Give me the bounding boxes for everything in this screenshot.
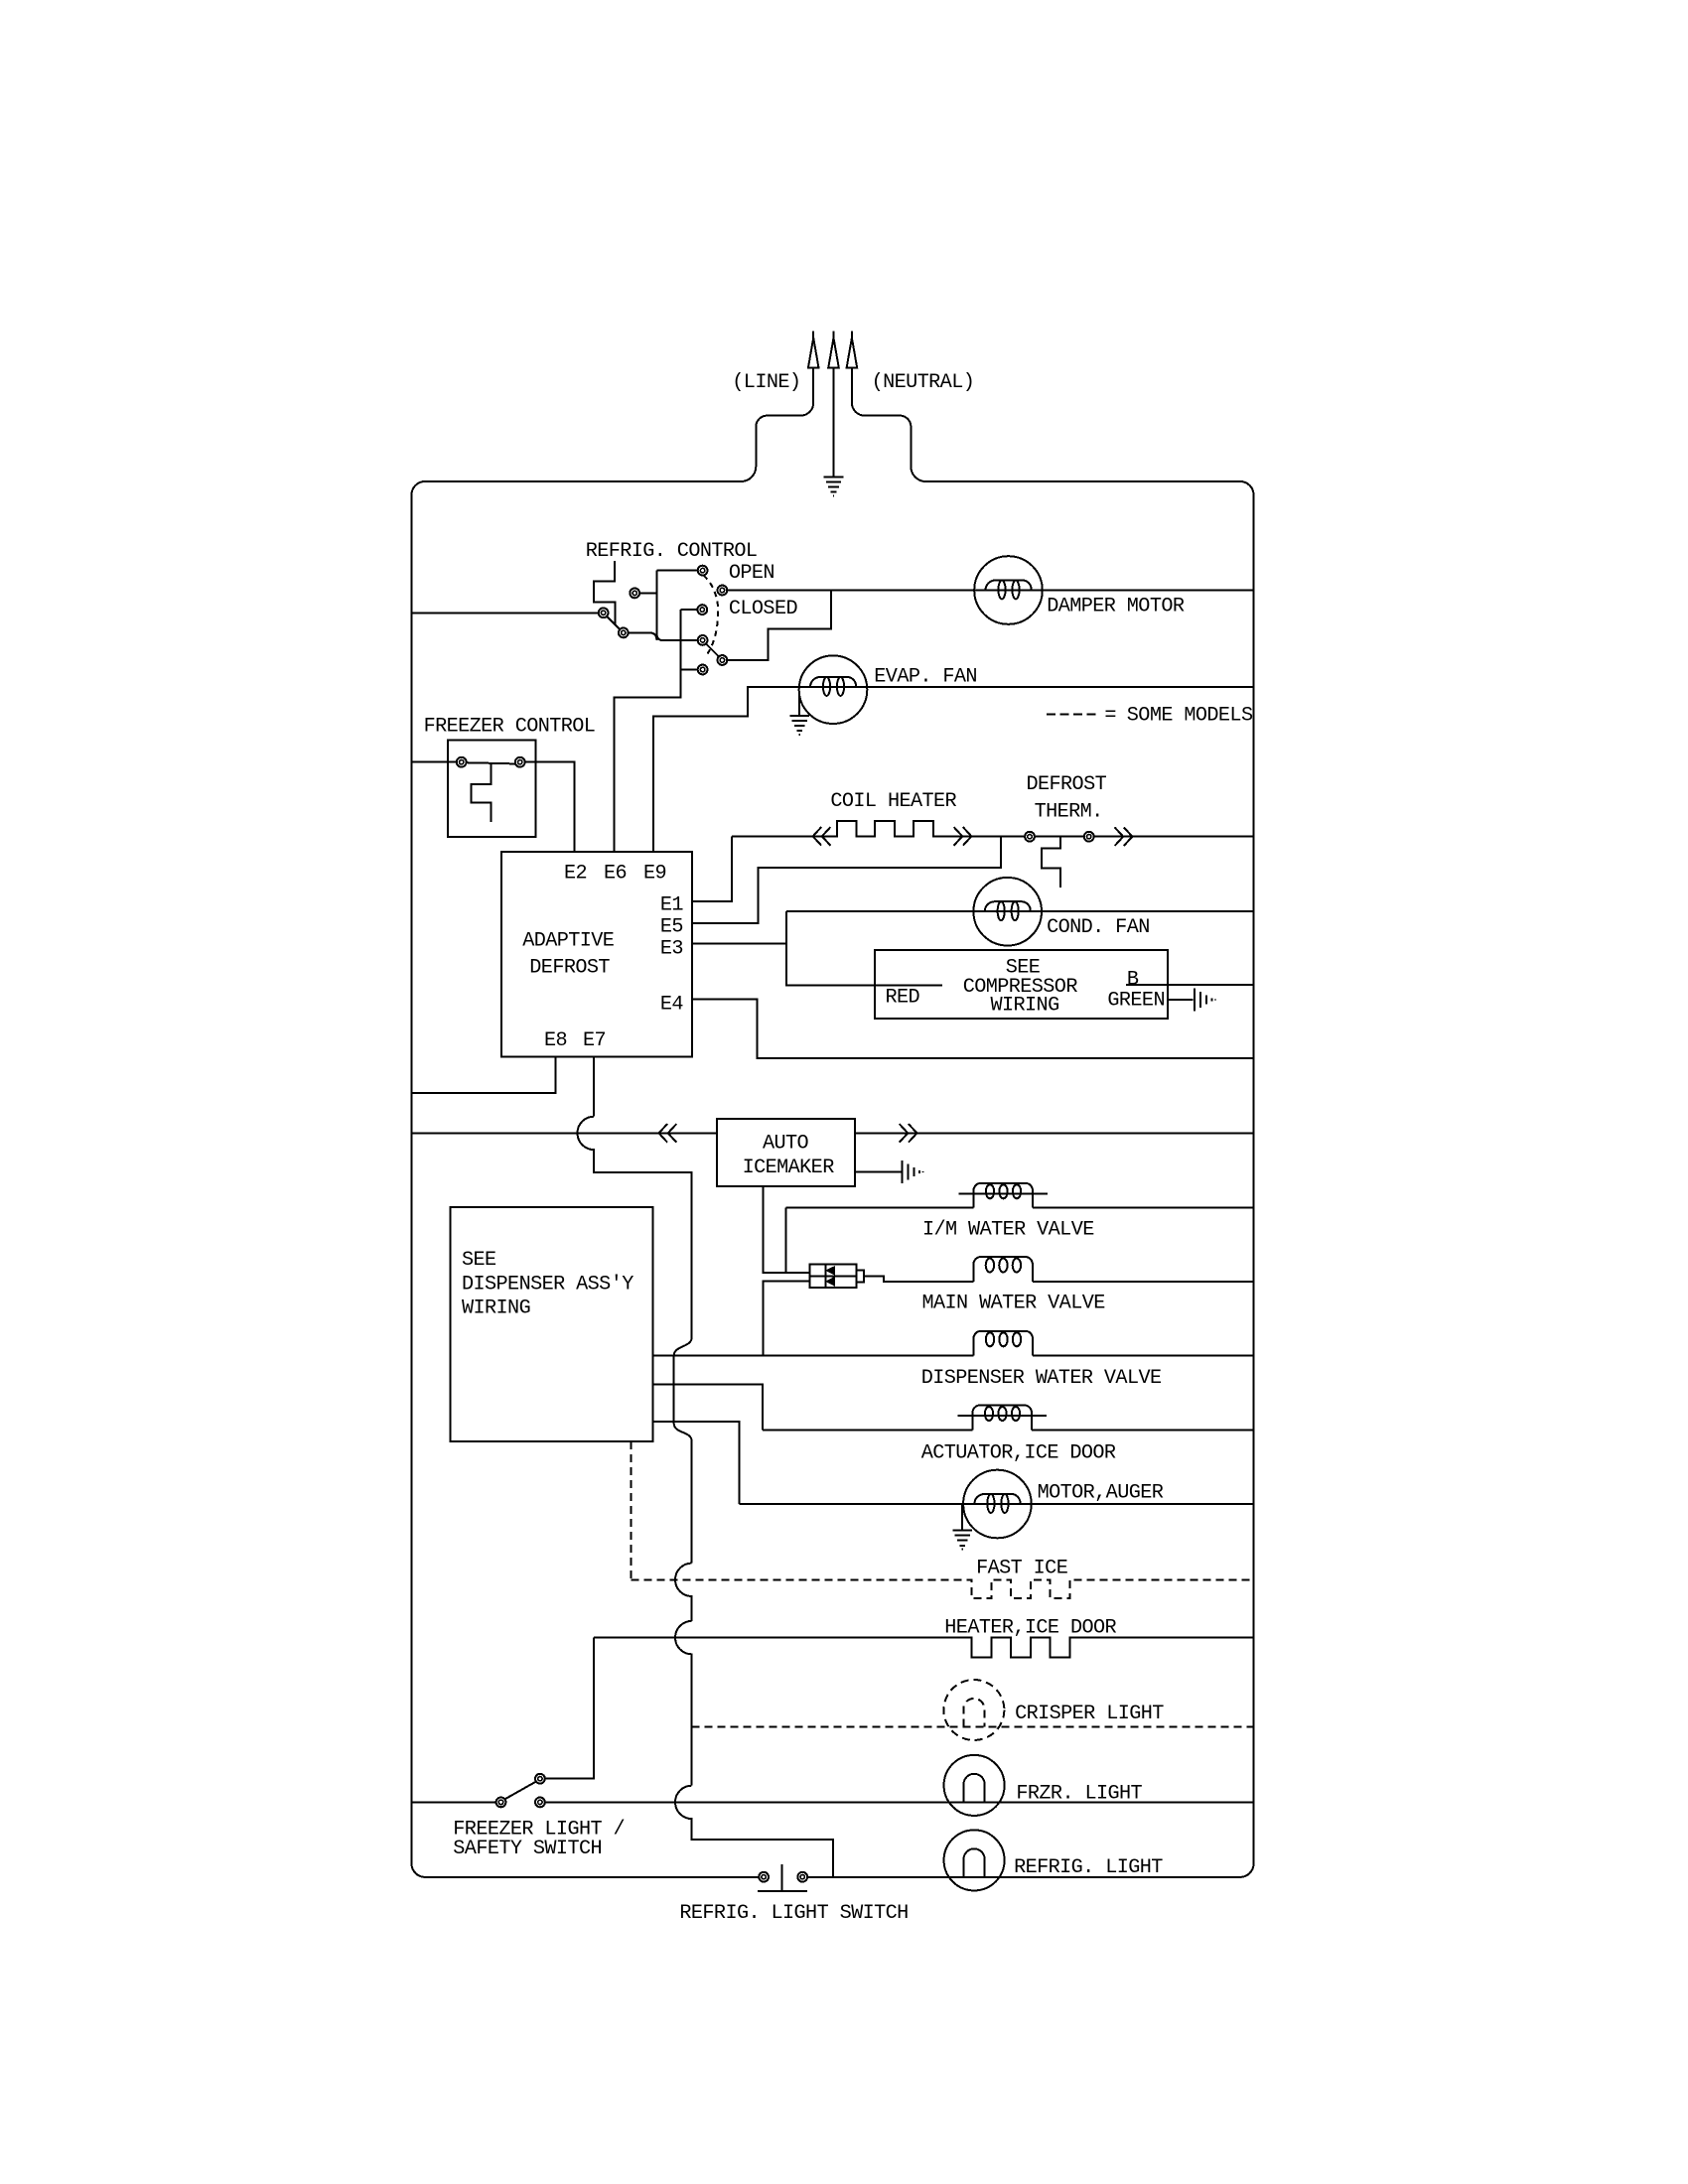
wire: damper motor line bbox=[727, 590, 1253, 592]
wire: CLOSED output jog up to damper line bbox=[727, 591, 831, 661]
terminal freezer control left bbox=[457, 757, 467, 767]
terminal refrig switch right bbox=[797, 1872, 807, 1882]
svg-text:OPEN: OPEN bbox=[729, 562, 774, 585]
ground at power entry bbox=[824, 477, 844, 495]
svg-text:ADAPTIVE: ADAPTIVE bbox=[522, 930, 615, 953]
svg-text:DISPENSER WATER VALVE: DISPENSER WATER VALVE bbox=[921, 1367, 1162, 1390]
svg-text:E5: E5 bbox=[660, 916, 683, 939]
svg-text:SOME MODELS: SOME MODELS bbox=[1127, 705, 1253, 728]
connector chevrons left of icemaker bbox=[659, 1124, 677, 1143]
wire: cond fan line bbox=[786, 910, 1254, 912]
wire: E9 riser to evap fan bbox=[653, 687, 799, 852]
wire: freezer control to E2 bbox=[525, 762, 575, 853]
svg-text:SEE: SEE bbox=[462, 1249, 496, 1272]
terminal CLOSED upper bbox=[697, 605, 707, 614]
svg-text:REFRIG. CONTROL: REFRIG. CONTROL bbox=[586, 540, 758, 563]
terminal freezer control right bbox=[515, 757, 525, 767]
terminal left-mid bbox=[630, 589, 639, 599]
svg-text:DAMPER MOTOR: DAMPER MOTOR bbox=[1047, 596, 1185, 618]
terminal safety switch right bbox=[535, 1798, 545, 1808]
freezer control box bbox=[448, 740, 535, 837]
wire: t6 to vertical bbox=[681, 609, 698, 611]
connector chevrons right of coil heater bbox=[954, 827, 972, 846]
wire: neutral prong stem bbox=[833, 368, 835, 478]
resistor coil heater bbox=[732, 821, 1254, 836]
enclosure outline with power-entry bump bbox=[412, 368, 1254, 1877]
svg-text:(NEUTRAL): (NEUTRAL) bbox=[872, 371, 975, 394]
svg-text:ICEMAKER: ICEMAKER bbox=[743, 1157, 835, 1179]
svg-text:CRISPER LIGHT: CRISPER LIGHT bbox=[1015, 1703, 1164, 1725]
terminal arm bbox=[619, 628, 629, 638]
damper motor M1 bbox=[974, 556, 1043, 624]
auger motor M4 bbox=[963, 1470, 1032, 1539]
wire: dashed drop from dispenser box bbox=[630, 1441, 632, 1580]
wire: dispenser pin B to actuator line bbox=[653, 1385, 764, 1431]
wire: frzr light line bbox=[412, 1801, 1254, 1803]
wire: I/M valve line bbox=[785, 1207, 1253, 1209]
ground at evap fan bbox=[789, 716, 809, 735]
svg-text:FRZR. LIGHT: FRZR. LIGHT bbox=[1016, 1783, 1142, 1806]
wire: icemaker line left bbox=[412, 1132, 718, 1134]
freezer light lamp bbox=[944, 1755, 1005, 1816]
freezer control sensing zigzag bbox=[472, 763, 492, 822]
connector chevrons right of defrost therm bbox=[1115, 827, 1133, 846]
crisper light lamp bbox=[943, 1680, 1004, 1740]
wire: icemaker ground stub bbox=[855, 1171, 902, 1173]
svg-text:HEATER,ICE DOOR: HEATER,ICE DOOR bbox=[944, 1616, 1116, 1639]
wire: t1 left bbox=[656, 570, 698, 572]
resistor heater ice door bbox=[594, 1638, 1254, 1658]
wire: border to freezer control bbox=[412, 761, 458, 763]
refrig light switch plunger bbox=[758, 1864, 807, 1891]
svg-text:REFRIG. LIGHT SWITCH: REFRIG. LIGHT SWITCH bbox=[679, 1902, 908, 1925]
terminal pivot bbox=[698, 635, 708, 645]
solenoid coil dispenser water valve bbox=[973, 1331, 1033, 1356]
wire: auger motor line bbox=[739, 1503, 1253, 1505]
terminal OPEN output bbox=[718, 586, 728, 596]
wire: dispenser valve line bbox=[653, 1355, 1254, 1357]
refrig light lamp bbox=[944, 1830, 1005, 1890]
svg-text:CLOSED: CLOSED bbox=[729, 598, 798, 620]
svg-text:=: = bbox=[1104, 705, 1116, 728]
svg-text:MAIN WATER VALVE: MAIN WATER VALVE bbox=[922, 1293, 1106, 1315]
wire: vertical t6-t9 down to E6 run bbox=[615, 610, 681, 852]
svg-text:MOTOR,AUGER: MOTOR,AUGER bbox=[1038, 1482, 1164, 1505]
svg-text:(LINE): (LINE) bbox=[732, 371, 800, 394]
wire: actuator line bbox=[763, 1429, 1254, 1431]
wire: icemaker line right bbox=[855, 1132, 1254, 1134]
svg-text:WIRING: WIRING bbox=[462, 1297, 530, 1320]
svg-text:DEFROST: DEFROST bbox=[1027, 773, 1107, 796]
wire: main line to refrig control bbox=[412, 613, 604, 614]
svg-text:DEFROST: DEFROST bbox=[529, 957, 610, 980]
wire: t3 right bbox=[639, 592, 656, 594]
svg-text:WIRING: WIRING bbox=[991, 995, 1059, 1018]
svg-text:REFRIG. LIGHT: REFRIG. LIGHT bbox=[1014, 1856, 1163, 1879]
terminal safety switch left bbox=[496, 1798, 506, 1808]
terminal defrost therm right bbox=[1084, 832, 1094, 842]
svg-text:THERM.: THERM. bbox=[1035, 801, 1103, 824]
svg-text:E4: E4 bbox=[660, 994, 684, 1017]
svg-text:E2: E2 bbox=[564, 863, 587, 886]
terminal defrost therm left bbox=[1025, 832, 1035, 842]
solenoid coil I/M water valve bbox=[959, 1183, 1049, 1208]
svg-text:COIL HEATER: COIL HEATER bbox=[830, 790, 956, 813]
adaptive defrost control box bbox=[501, 852, 692, 1056]
ground at compressor GREEN bbox=[1195, 988, 1215, 1011]
power entry arrows (LINE / NEUTRAL / ground prong) bbox=[808, 332, 819, 368]
wire: E1 to coil heater line bbox=[692, 836, 732, 901]
wire: GREEN to ground bbox=[1168, 999, 1193, 1001]
terminal OPEN upper bbox=[698, 566, 708, 576]
terminal lower bbox=[698, 665, 708, 675]
wire: auger ground stem bbox=[961, 1504, 963, 1531]
svg-text:GREEN: GREEN bbox=[1107, 990, 1165, 1013]
wire: t9 to vertical bbox=[681, 669, 698, 671]
wire: main valve line right bbox=[1033, 1281, 1254, 1283]
terminal refrig switch left bbox=[759, 1872, 769, 1882]
svg-text:E8: E8 bbox=[544, 1029, 567, 1052]
svg-text:DISPENSER ASS'Y: DISPENSER ASS'Y bbox=[462, 1274, 633, 1297]
solenoid coil main water valve bbox=[973, 1257, 1033, 1282]
wire: bottom line gap for switch (mask) bbox=[769, 1875, 797, 1878]
wire: B line to right border bbox=[1126, 984, 1254, 986]
terminal CLOSED output bbox=[718, 655, 728, 665]
wire: icemaker pin down to diode bbox=[763, 1186, 809, 1273]
wire: evap fan ground stem bbox=[798, 687, 800, 716]
wire: safety switch to heater line bbox=[545, 1638, 594, 1779]
wire: crisper light dashed line bbox=[692, 1726, 1254, 1728]
wire: dispenser pin C to auger motor bbox=[653, 1422, 740, 1504]
wire: diode lower-left to dispenser valve line bbox=[763, 1281, 809, 1355]
svg-text:FREEZER CONTROL: FREEZER CONTROL bbox=[424, 715, 596, 738]
dashed switch travel arc bbox=[704, 576, 719, 654]
svg-text:E9: E9 bbox=[643, 863, 666, 886]
connector chevrons left of coil heater bbox=[813, 827, 831, 846]
svg-text:B: B bbox=[1127, 969, 1139, 992]
svg-text:I/M WATER VALVE: I/M WATER VALVE bbox=[922, 1219, 1094, 1242]
svg-text:E6: E6 bbox=[604, 863, 627, 886]
solenoid coil actuator ice door bbox=[958, 1406, 1048, 1431]
terminal main-line bbox=[599, 608, 609, 617]
svg-text:SAFETY SWITCH: SAFETY SWITCH bbox=[453, 1838, 602, 1860]
svg-text:E1: E1 bbox=[660, 894, 684, 917]
wire: I/M line drop to diode junction bbox=[784, 1208, 786, 1273]
ground at icemaker bbox=[903, 1160, 923, 1183]
svg-text:RED: RED bbox=[886, 987, 920, 1010]
resistor fast ice (dashed) bbox=[631, 1579, 1253, 1598]
cond fan motor M3 bbox=[973, 878, 1042, 946]
wire: E5 to defrost therm line bbox=[692, 837, 1001, 924]
evap fan motor M2 bbox=[799, 655, 868, 724]
refrig control thermostat leader zigzag bbox=[594, 561, 615, 624]
see dispenser assy wiring box bbox=[450, 1207, 652, 1441]
see compressor wiring box bbox=[875, 950, 1168, 1019]
wire: E4 to right border bbox=[692, 999, 1254, 1058]
svg-text:E3: E3 bbox=[660, 938, 683, 961]
diode block D1 bbox=[810, 1265, 857, 1288]
svg-text:AUTO: AUTO bbox=[763, 1133, 809, 1156]
svg-text:EVAP. FAN: EVAP. FAN bbox=[874, 666, 977, 689]
svg-text:E7: E7 bbox=[583, 1029, 606, 1052]
auto icemaker box bbox=[717, 1119, 855, 1186]
terminal safety switch upper bbox=[535, 1774, 545, 1784]
connector chevrons right of icemaker bbox=[900, 1124, 917, 1143]
svg-text:ACTUATOR,ICE DOOR: ACTUATOR,ICE DOOR bbox=[921, 1442, 1116, 1465]
wire: E8 to left border bbox=[412, 1056, 556, 1093]
wire: diode out to main valve bbox=[864, 1276, 974, 1282]
svg-text:COND. FAN: COND. FAN bbox=[1047, 916, 1150, 939]
svg-text:FAST ICE: FAST ICE bbox=[976, 1557, 1068, 1579]
defrost therm sensing zigzag bbox=[1042, 837, 1060, 887]
safety switch arm bbox=[505, 1782, 536, 1800]
switch arm t7-t8 bbox=[706, 644, 718, 657]
wire: E7 descender with hops bbox=[578, 1056, 833, 1877]
wire: evap fan line to right border bbox=[799, 686, 1253, 688]
ground at auger motor bbox=[952, 1531, 972, 1550]
legend dashed sample bbox=[1047, 713, 1100, 715]
wire: E3 to cond fan / compressor RED bbox=[692, 911, 942, 985]
switch arm t4-t5 bbox=[607, 615, 622, 629]
wire: t5 to t7 via fillet bbox=[628, 632, 656, 640]
freezer control arm bbox=[466, 762, 515, 763]
